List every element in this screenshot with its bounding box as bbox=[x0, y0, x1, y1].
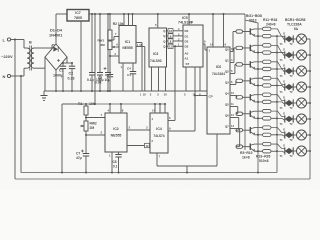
svg-text:2M: 2M bbox=[90, 126, 95, 130]
wire RW1 wiper to IC1 pin6 bbox=[116, 43, 119, 47]
wire IC2 pin1 to bus bbox=[109, 152, 113, 174]
wire IC6 Q7 to channel 8 bbox=[225, 124, 240, 147]
resistor R11 bbox=[263, 27, 272, 30]
capacitor C3 0.1u bbox=[87, 13, 95, 92]
lamp ZD4 bbox=[293, 82, 310, 92]
transistor BG2 bbox=[250, 45, 262, 53]
triac BCR8 bbox=[280, 147, 294, 158]
wire bridge-bottom to ground rail bbox=[55, 70, 57, 92]
multiplexer IC5 74LS151 bbox=[178, 16, 203, 67]
wire IC3 gnd pin3 bbox=[157, 67, 159, 97]
svg-text:R19~R26: R19~R26 bbox=[256, 155, 271, 159]
junction lamp bus 2 bbox=[309, 54, 311, 56]
wire IC4 pin vcc3 bbox=[164, 103, 166, 113]
svg-text:Q0: Q0 bbox=[225, 47, 229, 51]
transistor BG5 bbox=[250, 94, 262, 102]
resistor R26 bbox=[263, 150, 272, 153]
transistor BG3 bbox=[250, 61, 262, 69]
wire secondary-top to bridge bbox=[37, 45, 55, 48]
svg-text:Q2: Q2 bbox=[225, 69, 229, 73]
wire gate channel 1 bbox=[271, 29, 285, 37]
ground symbol bbox=[41, 91, 48, 101]
lamp ZD7 bbox=[293, 130, 310, 140]
wire IC3 pin5 to +5V bbox=[155, 13, 159, 28]
wire IC3 output QC pin 8 bbox=[163, 38, 183, 43]
svg-text:IC3: IC3 bbox=[153, 52, 158, 56]
wire IC6 Q2 to channel 3 bbox=[225, 64, 236, 73]
junction lamp bus 8 bbox=[309, 150, 311, 152]
svg-text:10: 10 bbox=[164, 93, 168, 97]
svg-text:G: G bbox=[283, 127, 285, 131]
wire T1 channel 4 bbox=[257, 84, 285, 88]
capacitor C8 0.1 bbox=[113, 152, 122, 174]
resistor R4 bbox=[236, 46, 250, 49]
wire IC2 pin8 to +5V bbox=[120, 103, 124, 113]
label BCR1~BCR8 TLC226A bbox=[285, 18, 306, 31]
wire IC3 output QD pin 11 bbox=[163, 44, 183, 49]
wire IC1 pin18 drop bbox=[136, 43, 145, 91]
resistor R17 bbox=[263, 126, 272, 129]
svg-text:240×8: 240×8 bbox=[266, 23, 276, 27]
svg-text:N: N bbox=[3, 74, 6, 79]
svg-text:0.1: 0.1 bbox=[127, 73, 132, 77]
svg-text:IC6: IC6 bbox=[216, 65, 222, 69]
wire gate channel 8 bbox=[271, 143, 285, 148]
wire IC1 pin16 to +5V bbox=[132, 13, 134, 26]
regulator IC7 7805 bbox=[67, 10, 89, 22]
wire IC6 Q1 to channel 2 bbox=[225, 48, 236, 63]
resistor R18 bbox=[263, 142, 272, 145]
svg-text:0.1μ: 0.1μ bbox=[87, 78, 94, 82]
junction lamp bus 4 bbox=[309, 86, 311, 88]
capacitor C2 0.33 bbox=[68, 62, 76, 92]
wire 7805 gnd pin bbox=[80, 21, 82, 92]
label R3~R10 1kx8 bbox=[240, 151, 253, 160]
bus lamp vertical bbox=[309, 39, 311, 179]
svg-text:G: G bbox=[283, 79, 285, 83]
svg-text:IC7: IC7 bbox=[75, 11, 81, 15]
svg-text:Q4: Q4 bbox=[225, 91, 229, 95]
svg-text:G: G bbox=[283, 47, 285, 51]
svg-text:Q5: Q5 bbox=[225, 102, 229, 106]
triac BCR2 bbox=[280, 51, 294, 62]
wire L down-bus bbox=[14, 39, 16, 180]
wire IC4 pin7 gnd bbox=[157, 153, 161, 166]
wire R2-RW1 junction to IC1 pin7 bbox=[110, 32, 119, 40]
svg-text:G: G bbox=[283, 63, 285, 67]
svg-text:B: B bbox=[29, 41, 32, 45]
bus T1 vertical bbox=[276, 36, 278, 172]
svg-text:11: 11 bbox=[169, 45, 172, 49]
lamp ZD3 bbox=[293, 66, 310, 76]
wire IC1 pin4 to +5V bbox=[123, 13, 125, 26]
bus rail-end vertical bbox=[244, 14, 246, 150]
wire gate channel 2 bbox=[271, 45, 285, 52]
svg-text:0.33: 0.33 bbox=[68, 77, 75, 81]
junction lamp bus 6 bbox=[309, 118, 311, 120]
triac BCR3 bbox=[280, 67, 294, 78]
resistor R3 bbox=[236, 30, 250, 33]
wire IC6 Q6 to channel 7 bbox=[225, 113, 239, 130]
wire IC1 pin1 to ground bbox=[121, 63, 124, 91]
bottom bus inner bbox=[21, 172, 277, 174]
resistor R13 bbox=[263, 60, 272, 63]
resistor R19 bbox=[263, 34, 272, 37]
resistor R22 bbox=[263, 84, 272, 87]
resistor R8 bbox=[236, 112, 250, 115]
sub +5V rail bbox=[84, 103, 165, 105]
wire RW2 tap to IC2 pin7 bbox=[85, 113, 105, 119]
wire IC6 pin14 to +5V bbox=[210, 13, 214, 47]
wire bridge-top to 7805 input bbox=[56, 14, 67, 44]
svg-text:0.1: 0.1 bbox=[113, 165, 118, 169]
lamp ZD1 bbox=[293, 34, 310, 44]
wire IC6 pin9 to +5V bbox=[223, 13, 227, 47]
resistor R21 bbox=[263, 67, 272, 70]
svg-text:18: 18 bbox=[139, 43, 142, 47]
wire gate channel 6 bbox=[271, 111, 285, 116]
triac BCR1 bbox=[280, 35, 294, 46]
wire IC6 Q5 to channel 6 bbox=[225, 102, 238, 114]
svg-text:14: 14 bbox=[210, 43, 214, 47]
svg-text:D2: D2 bbox=[185, 39, 189, 43]
svg-text:9013: 9013 bbox=[249, 19, 257, 23]
flip-flop IC4 74LS74 bbox=[150, 113, 168, 153]
wire IC1 pin8 to +5V bbox=[128, 13, 130, 26]
terminal L bbox=[3, 38, 25, 43]
wire IC6 CP line bbox=[194, 95, 207, 97]
counter IC3 74LS93 bbox=[149, 28, 167, 67]
wire gate channel 3 bbox=[271, 62, 285, 69]
svg-text:R11~R18: R11~R18 bbox=[263, 18, 277, 22]
transistor BG8 bbox=[250, 143, 262, 151]
wire gate channel 7 bbox=[271, 127, 285, 132]
svg-text:0.01: 0.01 bbox=[95, 81, 102, 85]
svg-text:G: G bbox=[283, 143, 285, 147]
svg-text:Q3: Q3 bbox=[225, 80, 229, 84]
transistor BG1 bbox=[250, 28, 262, 36]
resistor R20 bbox=[263, 51, 272, 54]
svg-text:74LS74: 74LS74 bbox=[153, 134, 164, 138]
wire IC2 to IC4 pin12 bbox=[127, 143, 150, 148]
label ~220V bbox=[1, 54, 13, 59]
svg-text:12: 12 bbox=[145, 144, 149, 148]
capacitor C5 10u bbox=[104, 13, 111, 92]
wire IC3 output QA pin 12 bbox=[163, 28, 183, 33]
triac BCR6 bbox=[280, 115, 294, 126]
wire gate channel 4 bbox=[271, 78, 285, 84]
svg-text:A0: A0 bbox=[185, 52, 189, 56]
transformer B bbox=[24, 40, 37, 77]
resistor R25 bbox=[263, 133, 272, 136]
svg-text:7805: 7805 bbox=[74, 16, 82, 20]
svg-text:RW1: RW1 bbox=[98, 39, 105, 43]
resistor R1 10k bbox=[78, 102, 95, 115]
svg-text:10k: 10k bbox=[89, 102, 95, 106]
capacitor C3 0.01 bbox=[95, 55, 113, 92]
svg-text:C7: C7 bbox=[76, 152, 80, 156]
svg-text:D3: D3 bbox=[185, 45, 189, 49]
gnd link line bbox=[157, 166, 217, 174]
junction lamp bus 5 bbox=[309, 102, 311, 104]
capacitor C4 0.1 bbox=[127, 63, 136, 91]
resistor R10 bbox=[236, 145, 250, 148]
wire T1 channel 7 bbox=[257, 134, 285, 137]
wire T1 channel 1 bbox=[257, 35, 285, 40]
resistor R24 bbox=[263, 117, 272, 120]
svg-text:6A: 6A bbox=[294, 27, 299, 31]
svg-text:~220V: ~220V bbox=[1, 54, 13, 59]
bus emitter vertical bbox=[245, 20, 259, 174]
svg-text:IC4: IC4 bbox=[156, 127, 162, 131]
wire bridge-left to ground rail bbox=[44, 57, 46, 91]
svg-text:C8: C8 bbox=[113, 160, 117, 164]
resistor R5 bbox=[236, 63, 250, 66]
wire IC4 pin14 to sub rail bbox=[152, 103, 156, 113]
ground rail bbox=[44, 91, 207, 97]
resistor R12 bbox=[263, 44, 272, 47]
wire IC3 gnd pin2 bbox=[150, 67, 152, 97]
svg-text:NE555: NE555 bbox=[111, 134, 122, 138]
lamp ZD2 bbox=[293, 50, 310, 60]
resistor R2 10k bbox=[108, 13, 124, 40]
svg-text:12: 12 bbox=[169, 29, 173, 33]
junction lamp bus 7 bbox=[309, 134, 311, 136]
wire T1 channel 3 bbox=[257, 68, 285, 73]
svg-text:BG1~BG8: BG1~BG8 bbox=[246, 14, 262, 18]
lamp ZD5 bbox=[293, 98, 310, 108]
capacitor C7 47u bbox=[76, 135, 89, 174]
svg-text:Q7: Q7 bbox=[225, 124, 229, 128]
svg-text:1k×8: 1k×8 bbox=[242, 156, 250, 160]
svg-text:C2: C2 bbox=[69, 72, 74, 76]
label R11~R18 240x8 bbox=[263, 18, 277, 27]
svg-text:G: G bbox=[283, 31, 285, 35]
junction lamp bus 3 bbox=[309, 70, 311, 72]
lamp ZD8 bbox=[293, 146, 310, 156]
svg-text:1000μ: 1000μ bbox=[53, 74, 63, 78]
wire T1 channel 8 bbox=[257, 150, 285, 152]
svg-text:R3~R10: R3~R10 bbox=[240, 151, 253, 155]
svg-text:D1: D1 bbox=[185, 34, 189, 38]
triac BCR7 bbox=[280, 131, 294, 142]
svg-text:16: 16 bbox=[190, 20, 194, 24]
wire IC5 st stub bbox=[199, 67, 201, 97]
+5V rail bbox=[89, 13, 245, 15]
svg-text:Q1: Q1 bbox=[225, 58, 229, 62]
wire IC2 out to IC4 bbox=[127, 126, 150, 131]
svg-text:47μ: 47μ bbox=[76, 156, 82, 160]
wire N down-bus bbox=[20, 75, 22, 173]
bridge rectifier D1~D4 bbox=[45, 29, 67, 71]
wire IC4 Q1 to D3 bbox=[168, 116, 175, 121]
svg-text:NE555: NE555 bbox=[122, 46, 132, 50]
wire IC3 output QB pin 9 bbox=[163, 33, 183, 38]
label R19~R26 510x8 bbox=[256, 155, 271, 164]
wire T1 channel 2 bbox=[257, 52, 285, 57]
svg-text:IC2: IC2 bbox=[113, 127, 119, 131]
triac BCR4 bbox=[280, 83, 294, 94]
wire IC3 gnd pin10 bbox=[164, 67, 168, 97]
wire D3 to IC4 vertical bbox=[174, 45, 176, 120]
wire IC5 output Y to IC6 bbox=[203, 40, 207, 51]
wire IC6 Q4 to channel 5 bbox=[225, 91, 237, 97]
triac BCR5 bbox=[280, 99, 294, 110]
capacitor C1 1000u bbox=[53, 59, 66, 92]
wire T1 channel 5 bbox=[257, 101, 285, 105]
wire IC6 pin7 gnd bbox=[216, 134, 218, 166]
svg-text:C3: C3 bbox=[98, 76, 102, 80]
wire IC5 gnd stub bbox=[184, 67, 186, 97]
svg-text:2M: 2M bbox=[101, 43, 106, 47]
transistor BG6 bbox=[250, 111, 262, 119]
wire IC1 pin1 drop bbox=[136, 43, 142, 92]
svg-text:74LS164: 74LS164 bbox=[212, 72, 225, 76]
terminal N bbox=[3, 74, 25, 79]
svg-text:C1: C1 bbox=[59, 69, 64, 73]
lamp ZD6 bbox=[293, 114, 310, 124]
wire RW2 bottom to IC2 pin2/6 bbox=[85, 131, 105, 137]
svg-text:10μ: 10μ bbox=[105, 78, 111, 82]
wire RW1 bottom to IC1 pin2 bbox=[110, 50, 119, 57]
transistor BG7 bbox=[250, 127, 262, 135]
wire IC5 pin16 to +5V bbox=[188, 13, 194, 25]
svg-text:G: G bbox=[283, 111, 285, 115]
svg-text:BCR1~BCR8: BCR1~BCR8 bbox=[285, 18, 306, 22]
svg-text:C4: C4 bbox=[127, 67, 131, 71]
wire bridge-right to caps node bbox=[63, 57, 72, 63]
svg-text:IC1: IC1 bbox=[125, 40, 131, 44]
capacitor C4 100u bbox=[96, 13, 104, 92]
resistor R9 bbox=[236, 129, 250, 132]
wire gate channel 5 bbox=[271, 95, 285, 101]
resistor R14 bbox=[263, 77, 272, 80]
wire secondary-bottom to bridge bbox=[37, 57, 45, 68]
shift register IC6 74LS164 bbox=[207, 47, 230, 134]
transistor BG4 bbox=[250, 78, 262, 86]
svg-text:510×8: 510×8 bbox=[259, 159, 269, 163]
wire IC6 Q3 to channel 4 bbox=[225, 80, 236, 85]
potentiometer RW1 2M bbox=[98, 39, 117, 50]
wire IC4 pin vcc2 bbox=[159, 103, 161, 113]
svg-text:ST: ST bbox=[186, 62, 190, 66]
svg-text:D0: D0 bbox=[185, 29, 189, 33]
resistor R6 bbox=[236, 79, 250, 82]
svg-text:A1: A1 bbox=[185, 57, 189, 61]
wire IC5 A1 from below bbox=[193, 67, 197, 131]
wire +5 feed to sub rail bbox=[94, 13, 96, 105]
wire IC4 Q2 to IC6 CP bbox=[168, 96, 195, 132]
wire IC2 pin4 to +5V bbox=[108, 103, 112, 113]
resistor R23 bbox=[263, 100, 272, 103]
resistor R7 bbox=[236, 96, 250, 99]
potentiometer RW2 2M bbox=[80, 115, 97, 131]
oscillator IC1 NE555 bbox=[119, 26, 136, 64]
resistor R16 bbox=[263, 109, 272, 112]
wire gnd-net drop bbox=[61, 104, 84, 174]
svg-text:CP: CP bbox=[209, 95, 213, 99]
wire IC6 Q0 to channel 1 bbox=[225, 32, 236, 52]
bottom bus outer bbox=[15, 178, 310, 180]
svg-text:G: G bbox=[283, 95, 285, 99]
wire T1 channel 6 bbox=[257, 117, 285, 120]
resistor R15 bbox=[263, 93, 272, 96]
timer IC2 NE555 bbox=[105, 113, 127, 152]
svg-text:74LS93: 74LS93 bbox=[150, 59, 162, 63]
svg-text:Q6: Q6 bbox=[225, 113, 229, 117]
label BG1~BG8 9013 bbox=[246, 14, 262, 23]
svg-text:IC5: IC5 bbox=[182, 16, 188, 20]
